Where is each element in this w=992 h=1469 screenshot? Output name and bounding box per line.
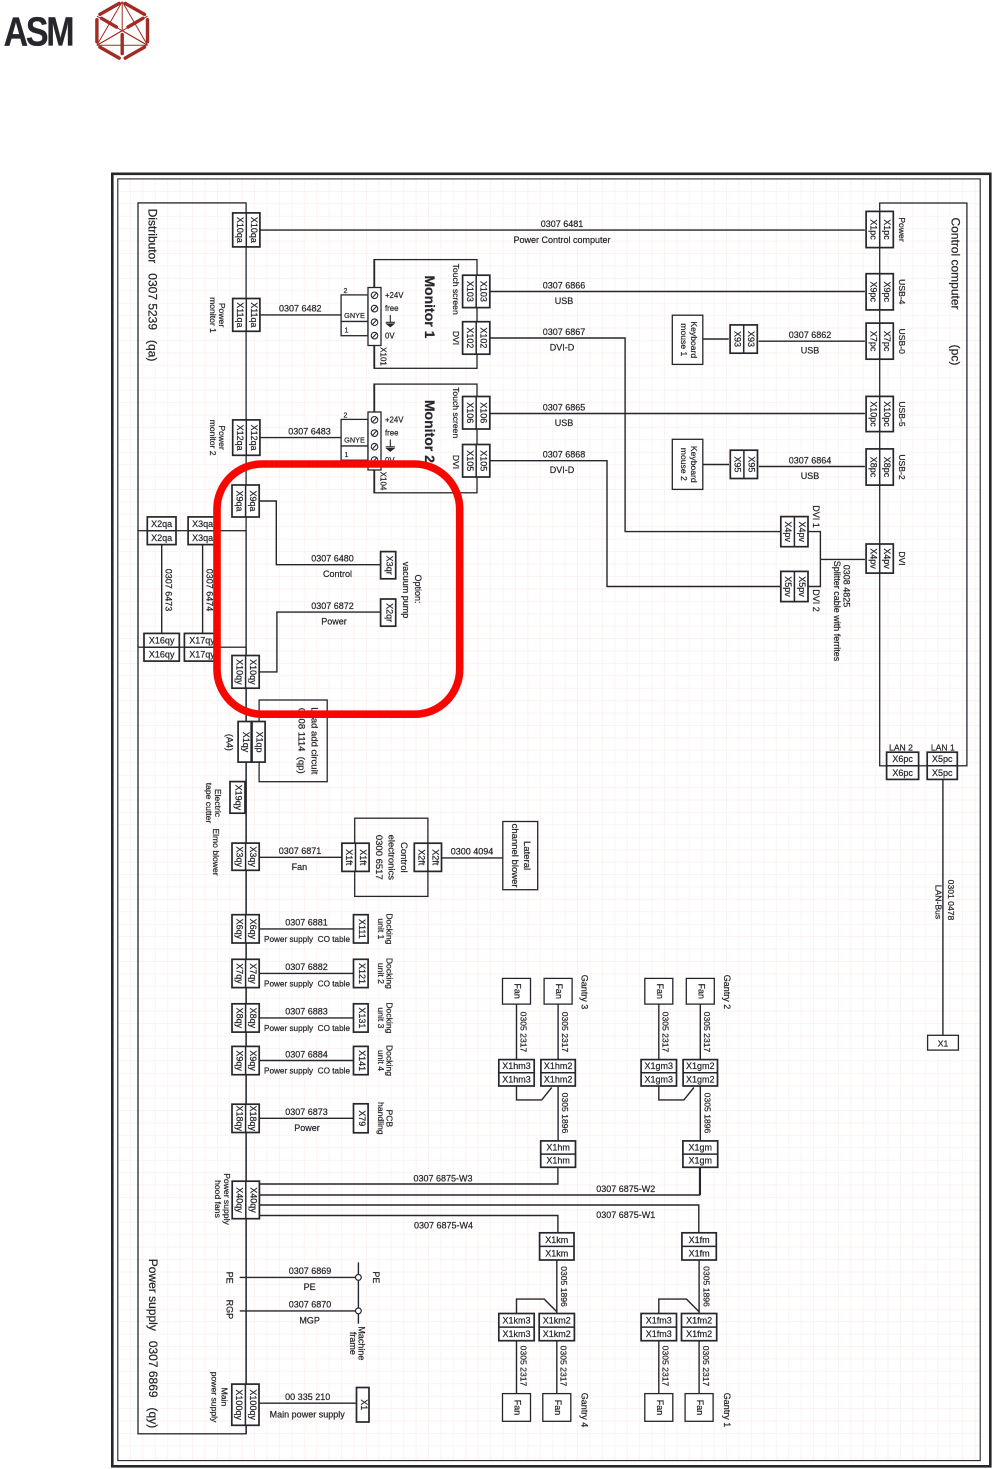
svg-text:X1km2: X1km2 [543, 1329, 571, 1339]
svg-text:Control: Control [323, 569, 352, 579]
svg-text:X1hm2: X1hm2 [544, 1061, 573, 1071]
svg-text:Power Control computer: Power Control computer [513, 235, 610, 245]
svg-text:X8pc: X8pc [882, 457, 892, 478]
keyboard mouse 2 box [672, 439, 703, 489]
connector X131 [354, 1004, 369, 1032]
svg-text:Fan: Fan [553, 1400, 563, 1416]
wire LAN-Bus X5pc to X1 [942, 779, 944, 1035]
svg-text:X103: X103 [465, 281, 475, 302]
svg-text:X2qr: X2qr [384, 603, 394, 622]
ground symbol X101 [386, 315, 395, 327]
wire 0305 2317 cables (X1gm) [658, 1004, 660, 1060]
connector X8qy [232, 1004, 259, 1032]
svg-text:X93: X93 [746, 331, 756, 347]
svg-text:Gantry 2: Gantry 2 [722, 975, 732, 1010]
svg-text:0307 6483: 0307 6483 [288, 426, 331, 436]
svg-text:USB: USB [801, 471, 820, 481]
connector X2qr [381, 599, 396, 626]
svg-text:X1gm3: X1gm3 [645, 1074, 674, 1084]
svg-text:X18qy: X18qy [234, 1106, 244, 1132]
connector X79 [354, 1104, 369, 1133]
wire 0307 6882 X7qy to X121 [260, 972, 354, 974]
svg-text:0305 1896: 0305 1896 [702, 1093, 712, 1134]
svg-text:0307 6481: 0307 6481 [541, 219, 584, 229]
svg-text:0307 6865: 0307 6865 [543, 402, 586, 412]
svg-text:X8qy: X8qy [234, 1008, 244, 1029]
svg-text:X3qr: X3qr [384, 556, 394, 575]
connector X11qa [233, 299, 260, 332]
connector X2ft [414, 843, 441, 871]
svg-text:Fan: Fan [655, 983, 665, 999]
connector X17qy [184, 633, 219, 661]
svg-text:PE: PE [225, 1272, 235, 1284]
svg-text:X1gm2: X1gm2 [686, 1061, 715, 1071]
connector X1 main power [357, 1388, 370, 1423]
wire 0307 6868 DVI-D X105 to X5pv DVI2 [490, 461, 781, 587]
wire X1gm to W2 [699, 1167, 701, 1195]
faint pink grid inside frame [118, 179, 980, 1460]
svg-text:1: 1 [345, 328, 349, 335]
svg-text:Lateral: Lateral [521, 841, 532, 870]
svg-text:X40qy: X40qy [248, 1187, 258, 1213]
connector X121 [354, 959, 369, 987]
svg-text:X1hm2: X1hm2 [544, 1074, 573, 1084]
svg-text:X1km3: X1km3 [502, 1329, 530, 1339]
fan boxes gantry (X1gm) [645, 978, 673, 1004]
svg-text:X10qa: X10qa [235, 217, 245, 243]
svg-text:X11qa: X11qa [249, 302, 259, 327]
svg-text:GNYE: GNYE [344, 436, 365, 445]
svg-text:Monitor 1: Monitor 1 [422, 275, 438, 338]
connector X111 [354, 915, 369, 943]
svg-text:frame: frame [348, 1332, 358, 1355]
Lateral channel blower box [503, 822, 538, 890]
svg-text:Control computer: Control computer [948, 217, 962, 309]
svg-text:0307 6867: 0307 6867 [543, 327, 586, 337]
svg-text:Fan: Fan [696, 983, 706, 999]
connector X105 [463, 445, 490, 478]
svg-text:X9pc: X9pc [868, 282, 878, 303]
svg-text:USB: USB [555, 418, 574, 428]
svg-text:X1pc: X1pc [882, 219, 892, 240]
svg-text:ASM: ASM [4, 9, 76, 54]
svg-text:X19qy: X19qy [234, 785, 244, 811]
svg-text:X1fm3: X1fm3 [646, 1316, 672, 1326]
svg-text:X3qa: X3qa [192, 519, 213, 529]
connector X1hm2 [541, 1060, 575, 1086]
svg-text:X11qa: X11qa [235, 302, 245, 327]
svg-text:X1: X1 [359, 1399, 369, 1410]
svg-text:Elmo blower: Elmo blower [211, 828, 221, 875]
svg-text:0305 2317: 0305 2317 [661, 1346, 671, 1387]
svg-text:0307 6881: 0307 6881 [285, 918, 328, 928]
svg-text:0307 6862: 0307 6862 [789, 330, 832, 340]
svg-text:0305 2317: 0305 2317 [661, 1012, 671, 1053]
wire 0307 6483 X12qa to monitor2 terminal [260, 437, 341, 439]
svg-text:X106: X106 [479, 402, 489, 423]
connector X1gm [683, 1141, 718, 1167]
svg-text:X111: X111 [357, 919, 367, 939]
svg-text:X10pc: X10pc [882, 401, 892, 427]
svg-text:0305 1896: 0305 1896 [560, 1093, 570, 1134]
connector X3qy [232, 843, 259, 870]
svg-text:X1km3: X1km3 [502, 1316, 530, 1326]
Monitor 1 box [374, 260, 477, 369]
svg-text:Power: Power [897, 217, 907, 241]
svg-text:LAN 1: LAN 1 [931, 743, 955, 753]
svg-text:X2ft: X2ft [430, 849, 440, 866]
connector X4pv pc DVI [866, 544, 893, 573]
svg-text:Fan: Fan [655, 1400, 665, 1416]
svg-text:X1gm: X1gm [689, 1156, 713, 1166]
svg-text:Distributor 0307 5239 (qa): Distributor 0307 5239 (qa) [145, 209, 159, 362]
connector X6pc [887, 752, 919, 779]
inner frame border [118, 179, 980, 1461]
svg-text:X1fm2: X1fm2 [686, 1316, 712, 1326]
svg-text:DVI 2: DVI 2 [811, 589, 821, 612]
svg-text:Power supply CO table: Power supply CO table [264, 1066, 350, 1075]
Monitor 2 box [374, 384, 477, 493]
svg-text:X4pv: X4pv [882, 548, 892, 569]
svg-text:LAN-Bus: LAN-Bus [933, 885, 943, 919]
svg-text:X1fm2: X1fm2 [686, 1329, 712, 1339]
connector X106 [463, 397, 490, 430]
wire 0305 1896 (X1km) [556, 1260, 558, 1314]
svg-text:X2qa: X2qa [151, 533, 172, 543]
svg-text:0307 6868: 0307 6868 [543, 450, 586, 460]
connector X9qa [232, 485, 259, 517]
svg-text:X2qa: X2qa [151, 519, 172, 529]
svg-text:X100qy: X100qy [234, 1389, 244, 1420]
fan boxes gantry (X1km) [503, 1394, 531, 1422]
svg-text:X10qy: X10qy [248, 659, 258, 685]
connector X1gm2 [683, 1060, 717, 1086]
svg-text:X2ft: X2ft [417, 849, 427, 866]
wire 0305 2317 cables (X1km) [516, 1341, 518, 1394]
connector X1 LAN [928, 1035, 959, 1050]
svg-text:X5pv: X5pv [783, 576, 793, 597]
connector X16qy [144, 633, 179, 661]
svg-text:unit 3: unit 3 [376, 1007, 386, 1028]
svg-text:USB-2: USB-2 [897, 454, 907, 480]
wire 0307 6869 PE [240, 1276, 356, 1278]
connector X1gm3 [641, 1060, 676, 1086]
wire 0307 6875-W1 [260, 1205, 699, 1233]
wire 0307 6474 X3qa to X17qy [202, 545, 204, 633]
svg-text:X17qy: X17qy [189, 636, 215, 646]
svg-text:0307 6875-W4: 0307 6875-W4 [414, 1220, 473, 1230]
outer frame border [112, 174, 990, 1467]
wire 0307 6875-W3 [260, 1167, 558, 1184]
svg-text:X141: X141 [357, 1050, 367, 1071]
svg-text:tape cutter: tape cutter [204, 783, 214, 824]
svg-text:unit 4: unit 4 [376, 1050, 386, 1071]
svg-text:0305 1896: 0305 1896 [701, 1266, 711, 1307]
svg-text:0308 4825: 0308 4825 [842, 565, 852, 608]
svg-text:unit 2: unit 2 [376, 963, 386, 984]
svg-text:0307 6884: 0307 6884 [285, 1049, 328, 1059]
svg-text:X6pc: X6pc [892, 754, 913, 764]
svg-text:00 335 210: 00 335 210 [285, 1392, 330, 1402]
node PE circle [357, 1262, 359, 1274]
svg-text:X103: X103 [479, 281, 489, 302]
svg-text:X1hm3: X1hm3 [502, 1074, 531, 1084]
svg-text:X1fm3: X1fm3 [646, 1329, 672, 1339]
svg-text:X7qy: X7qy [234, 963, 244, 984]
svg-text:+24V: +24V [385, 291, 404, 300]
connector X9qy [232, 1046, 259, 1074]
wire 0305 2317 cables (X1hm) [516, 1004, 518, 1060]
svg-text:X3qy: X3qy [234, 846, 244, 867]
wire 0307 6875-W2 [260, 1167, 700, 1195]
wire 0305 1896 (X1hm) [557, 1086, 559, 1141]
svg-text:X101: X101 [378, 347, 387, 366]
svg-text:Fan: Fan [695, 1400, 705, 1416]
svg-text:Touch screen: Touch screen [451, 387, 461, 438]
svg-text:X12qa: X12qa [249, 425, 259, 451]
svg-text:X9qa: X9qa [248, 490, 258, 511]
svg-text:monitor 1: monitor 1 [208, 297, 218, 333]
connector X8pc [866, 449, 893, 485]
svg-text:X1gm: X1gm [689, 1143, 713, 1153]
connector X102 [463, 322, 490, 355]
connector X95 [730, 450, 757, 478]
connector X1hm3 [499, 1060, 534, 1086]
svg-text:0305 2317: 0305 2317 [560, 1012, 570, 1053]
svg-text:X93: X93 [732, 331, 742, 347]
svg-text:X16qy: X16qy [149, 650, 175, 660]
svg-text:Gantry 1: Gantry 1 [722, 1393, 732, 1428]
svg-text:DVI 1: DVI 1 [811, 505, 821, 528]
svg-text:Fan: Fan [554, 983, 564, 999]
wire branch X1km3 join [517, 1299, 557, 1313]
svg-text:0V: 0V [385, 332, 395, 341]
svg-text:0305 2317: 0305 2317 [559, 1346, 569, 1387]
svg-text:(pc): (pc) [948, 345, 962, 366]
connector X1pc [866, 211, 893, 247]
svg-text:electronics: electronics [385, 835, 396, 881]
wire 0307 6473 X2qa to X16qy [161, 545, 163, 633]
connector X4pv DVI1 [781, 517, 808, 547]
svg-text:0307 6872: 0307 6872 [311, 601, 354, 611]
svg-text:LAN 2: LAN 2 [889, 743, 913, 753]
svg-text:Splitter cable with ferrites: Splitter cable with ferrites [832, 561, 842, 662]
wire splitter X4pv/X5pv to X4pv DVI [808, 532, 821, 587]
connector X7qy [232, 959, 259, 987]
svg-text:0307 6873: 0307 6873 [285, 1107, 328, 1117]
connector X1fm [682, 1233, 716, 1260]
svg-text:0307 6875-W3: 0307 6875-W3 [413, 1173, 472, 1183]
svg-text:0307 6482: 0307 6482 [279, 304, 322, 314]
svg-text:Power supply CO table: Power supply CO table [264, 935, 350, 944]
svg-text:Touch screen: Touch screen [451, 264, 461, 315]
svg-text:X6pc: X6pc [892, 768, 913, 778]
wire 0307 6865 USB X106 to X10pc [490, 413, 865, 415]
connector X1qp [252, 722, 265, 763]
svg-text:X105: X105 [479, 450, 489, 471]
svg-text:X95: X95 [746, 456, 756, 472]
svg-text:X10pc: X10pc [868, 401, 878, 427]
svg-text:USB: USB [555, 296, 574, 306]
svg-text:free: free [385, 304, 398, 313]
svg-text:X1ft: X1ft [344, 849, 354, 866]
svg-text:mouse 2: mouse 2 [679, 448, 689, 481]
svg-text:Option:: Option: [413, 574, 423, 603]
svg-text:X106: X106 [465, 402, 475, 423]
svg-text:X9qa: X9qa [234, 490, 244, 511]
svg-text:X105: X105 [465, 450, 475, 471]
svg-text:X5pv: X5pv [797, 576, 807, 597]
Load add circuit (qp) box [259, 700, 327, 782]
svg-text:X7pc: X7pc [882, 331, 892, 352]
svg-text:vacuum pump: vacuum pump [401, 562, 411, 619]
svg-text:Main power supply: Main power supply [270, 1409, 346, 1419]
svg-text:0307 6864: 0307 6864 [789, 455, 832, 465]
svg-text:Keyboard: Keyboard [689, 446, 699, 483]
connector X1km3 [499, 1314, 534, 1341]
connector X5pc [927, 752, 957, 779]
connector X2qa [147, 517, 176, 545]
svg-text:X95: X95 [733, 456, 743, 472]
connector X10qy [232, 656, 259, 689]
svg-text:Fan: Fan [292, 862, 308, 872]
svg-text:0307 6869: 0307 6869 [289, 1266, 332, 1276]
svg-text:1: 1 [345, 452, 349, 459]
svg-text:X7pc: X7pc [868, 331, 878, 352]
svg-text:X1km: X1km [545, 1235, 568, 1245]
svg-text:0305 2317: 0305 2317 [702, 1012, 712, 1053]
wire X10qy to X2qr power [259, 612, 380, 672]
connector X1hm [541, 1141, 576, 1167]
svg-text:0300 6517: 0300 6517 [373, 835, 384, 880]
svg-text:X100qy: X100qy [248, 1389, 258, 1420]
ASM logo hexagon [97, 2, 148, 59]
svg-text:X1ft: X1ft [358, 849, 368, 866]
svg-text:MGP: MGP [299, 1315, 320, 1325]
svg-text:X102: X102 [479, 327, 489, 348]
connector X103 [463, 275, 490, 307]
connector X1qy [238, 722, 251, 763]
svg-text:Control: Control [398, 842, 409, 873]
svg-text:0307 6882: 0307 6882 [285, 962, 328, 972]
svg-text:0307 6480: 0307 6480 [311, 554, 354, 564]
svg-text:X104: X104 [378, 472, 387, 491]
svg-text:X1: X1 [938, 1038, 949, 1048]
wire branch X1gm3 join [659, 1086, 694, 1100]
svg-text:X4pv: X4pv [868, 548, 878, 569]
connector X18qy [232, 1104, 259, 1132]
svg-text:X1fm: X1fm [689, 1248, 710, 1258]
svg-text:PE: PE [371, 1271, 381, 1283]
svg-text:X1gm2: X1gm2 [686, 1074, 715, 1084]
svg-text:X1km: X1km [545, 1248, 568, 1258]
connector X12qa [233, 420, 260, 455]
svg-text:X1hm: X1hm [546, 1156, 570, 1166]
fan boxes gantry (X1hm) [503, 978, 531, 1004]
svg-text:DVI: DVI [451, 455, 461, 469]
svg-text:X9pc: X9pc [882, 282, 892, 303]
svg-text:mouse 1: mouse 1 [679, 323, 689, 356]
wire 0307 6870 MGP [240, 1310, 356, 1312]
svg-text:2: 2 [344, 288, 348, 295]
svg-text:0305 2317: 0305 2317 [518, 1012, 528, 1053]
svg-text:X16qy: X16qy [149, 636, 175, 646]
wire 0300 4094 X2ft to lateral blower [441, 857, 503, 859]
svg-text:X6qy: X6qy [234, 919, 244, 940]
svg-text:X5pc: X5pc [932, 768, 953, 778]
connector X100qy [232, 1384, 259, 1425]
wire branch X1hm3 join [517, 1086, 552, 1100]
svg-text:(A4): (A4) [225, 734, 235, 751]
svg-text:Keyboard: Keyboard [689, 321, 699, 358]
svg-text:Power: Power [321, 617, 347, 627]
svg-text:channel blower: channel blower [509, 824, 520, 888]
wire main vertical X10qy to X1qy to X19qy [245, 647, 247, 1434]
svg-text:2: 2 [344, 413, 348, 420]
wire 0307 6883 X8qy to X131 [260, 1017, 354, 1019]
connector X19qy [230, 782, 245, 814]
svg-text:USB-5: USB-5 [897, 401, 907, 427]
svg-text:monitor 2: monitor 2 [208, 420, 218, 456]
fan boxes gantry (X1fm) [645, 1394, 673, 1422]
wire 0307 6862 USB X93 to X7pc [759, 340, 865, 342]
connector X1ft [342, 843, 369, 871]
wire qa-qy left edge link [137, 531, 139, 648]
svg-text:Main: Main [220, 1388, 230, 1407]
svg-text:Gantry 4: Gantry 4 [580, 1393, 590, 1428]
svg-text:X1qy: X1qy [241, 732, 251, 753]
wire keyboard mouse 1 to X93 [703, 338, 729, 340]
svg-text:X9qy: X9qy [248, 1050, 258, 1071]
svg-text:0307 6473: 0307 6473 [163, 569, 173, 612]
svg-text:DVI: DVI [451, 331, 461, 345]
wire 0307 6884 X9qy to X141 [260, 1060, 354, 1062]
svg-text:X40qy: X40qy [235, 1187, 245, 1213]
svg-text:0300 4094: 0300 4094 [451, 846, 494, 856]
svg-text:Fan: Fan [513, 983, 523, 999]
svg-text:X10qa: X10qa [249, 217, 259, 243]
svg-text:0307 6883: 0307 6883 [285, 1007, 328, 1017]
svg-text:X3qy: X3qy [248, 846, 258, 867]
svg-text:X1gm3: X1gm3 [645, 1061, 674, 1071]
connector X7pc [866, 323, 893, 359]
svg-text:0307 6866: 0307 6866 [543, 280, 586, 290]
wire X9qa to X3qr control [259, 501, 381, 565]
monitor terminal block X104 [374, 384, 376, 412]
svg-text:X4pv: X4pv [797, 521, 807, 542]
svg-text:X1pc: X1pc [868, 219, 878, 240]
connector X1fm2 [682, 1314, 717, 1341]
svg-text:X79: X79 [357, 1110, 367, 1126]
Distributor (qa) box [138, 203, 246, 531]
svg-text:X9qy: X9qy [234, 1050, 244, 1071]
svg-text:DVI: DVI [897, 551, 907, 565]
svg-text:USB-0: USB-0 [897, 329, 907, 355]
connector X10qa [233, 213, 260, 247]
svg-text:X7qy: X7qy [248, 963, 258, 984]
svg-text:handling: handling [376, 1102, 386, 1135]
svg-text:0307 6474: 0307 6474 [204, 569, 214, 612]
connector X1km2 [539, 1314, 574, 1341]
svg-text:0305 1896: 0305 1896 [559, 1266, 569, 1307]
svg-text:Power supply CO table: Power supply CO table [264, 979, 350, 988]
svg-text:X131: X131 [357, 1007, 367, 1028]
svg-text:X8qy: X8qy [248, 1008, 258, 1029]
svg-text:X3qa: X3qa [192, 533, 213, 543]
connector X10pc [866, 396, 893, 431]
svg-text:0305 2317: 0305 2317 [701, 1346, 711, 1387]
wire qa-qy right edge link [245, 531, 247, 648]
